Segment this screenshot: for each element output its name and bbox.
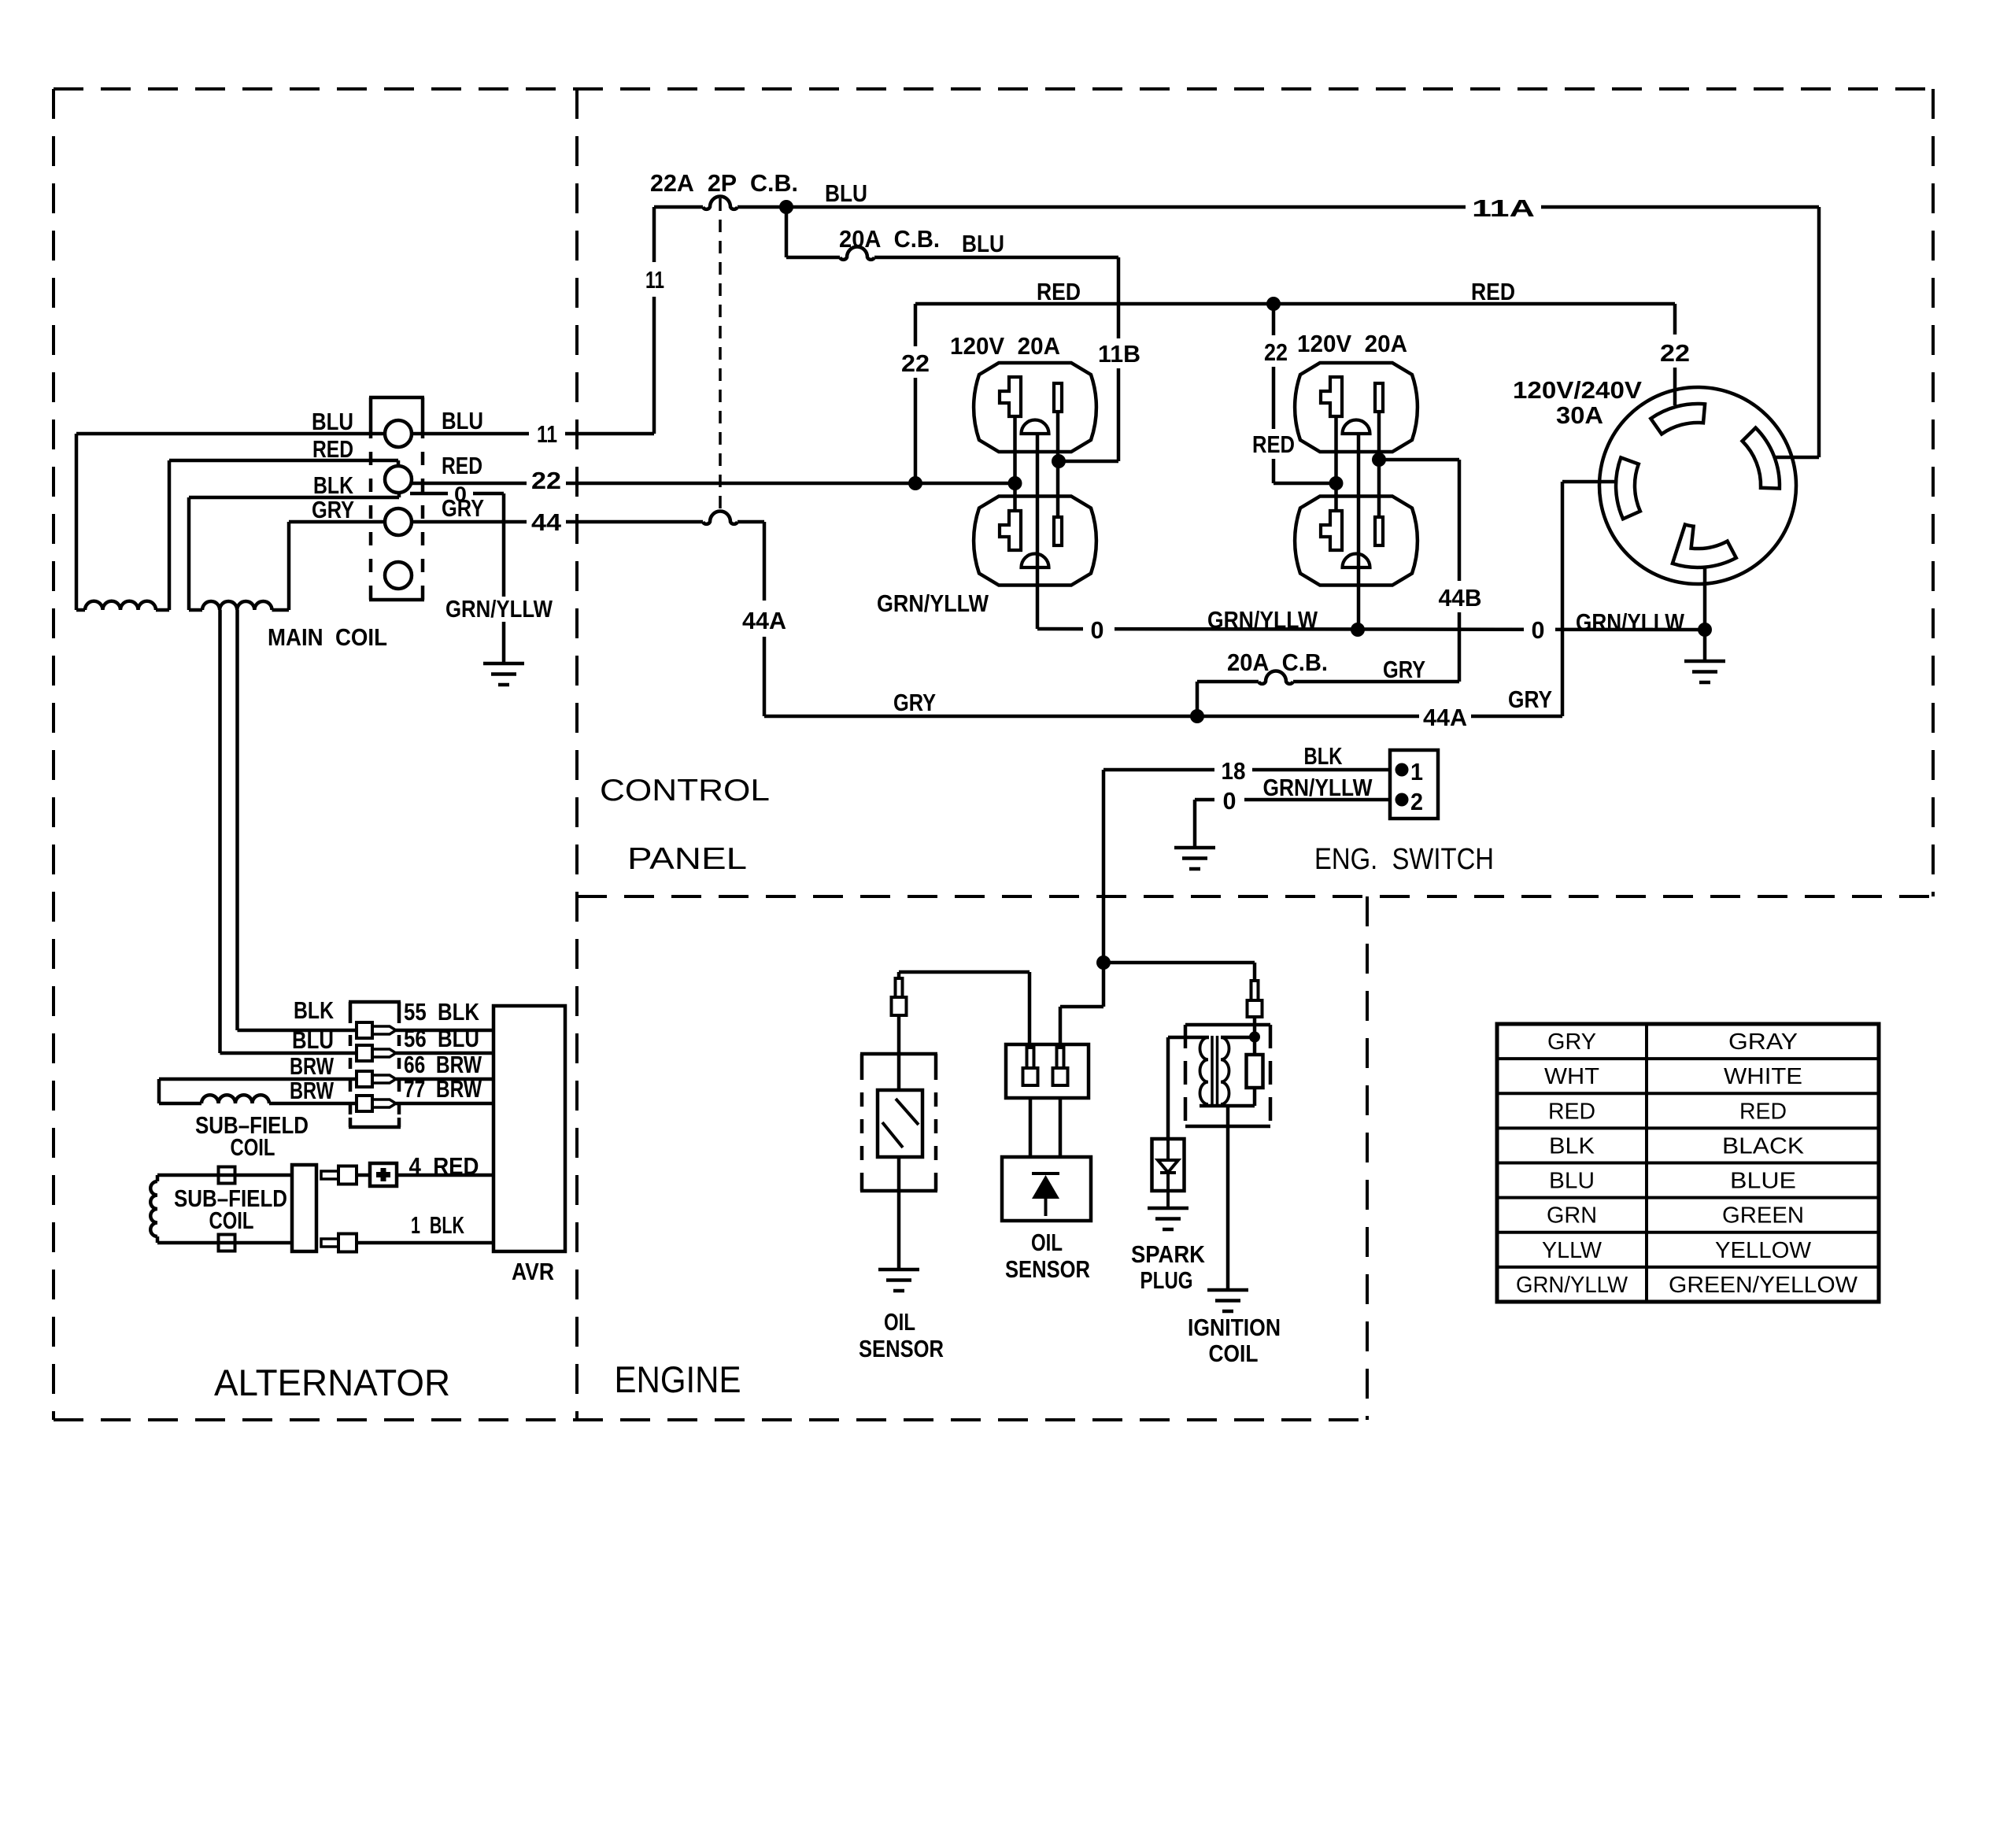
- svg-text:22: 22: [1264, 338, 1288, 366]
- svg-text:GRN/YLLW: GRN/YLLW: [1207, 606, 1318, 634]
- svg-text:GREEN: GREEN: [1722, 1203, 1804, 1229]
- svg-text:120V/240V: 120V/240V: [1513, 376, 1642, 404]
- svg-text:RED: RED: [1739, 1099, 1787, 1124]
- svg-text:20A C.B.: 20A C.B.: [1227, 649, 1328, 676]
- svg-text:BLU: BLU: [1549, 1169, 1595, 1194]
- svg-text:GRY: GRY: [1383, 656, 1425, 683]
- svg-text:BLK: BLK: [1549, 1133, 1595, 1159]
- svg-text:PANEL: PANEL: [627, 842, 747, 876]
- svg-text:0: 0: [1532, 616, 1545, 644]
- svg-text:0: 0: [1091, 616, 1104, 644]
- svg-text:PLUG: PLUG: [1140, 1266, 1193, 1294]
- svg-text:120V 20A: 120V 20A: [1297, 330, 1407, 357]
- svg-text:GRAY: GRAY: [1728, 1029, 1798, 1055]
- svg-text:22: 22: [1660, 339, 1690, 367]
- svg-text:COIL: COIL: [231, 1133, 275, 1161]
- svg-text:BLK: BLK: [1304, 742, 1343, 770]
- svg-text:WHITE: WHITE: [1724, 1064, 1802, 1089]
- svg-text:GRN/YLLW: GRN/YLLW: [877, 590, 989, 617]
- svg-text:YELLOW: YELLOW: [1715, 1238, 1812, 1263]
- svg-text:BRW: BRW: [290, 1052, 335, 1080]
- svg-text:GRN/YLLW: GRN/YLLW: [1576, 608, 1685, 636]
- svg-text:IGNITION: IGNITION: [1188, 1314, 1281, 1341]
- svg-text:22: 22: [901, 349, 930, 377]
- svg-text:56 BLU: 56 BLU: [404, 1025, 479, 1052]
- svg-text:BLU: BLU: [962, 230, 1004, 257]
- svg-text:11: 11: [645, 266, 664, 294]
- svg-text:ENG. SWITCH: ENG. SWITCH: [1314, 843, 1494, 876]
- svg-text:BLK: BLK: [294, 996, 334, 1024]
- svg-text:44B: 44B: [1439, 584, 1482, 612]
- svg-text:30A: 30A: [1556, 401, 1603, 429]
- svg-text:RED: RED: [312, 435, 353, 463]
- svg-text:11A: 11A: [1472, 194, 1535, 222]
- svg-text:1: 1: [1410, 758, 1423, 785]
- svg-text:44A: 44A: [742, 607, 786, 634]
- svg-text:GRN: GRN: [1547, 1203, 1597, 1229]
- svg-text:RED: RED: [442, 452, 482, 479]
- svg-text:GRY: GRY: [893, 689, 936, 716]
- svg-text:RED: RED: [1037, 278, 1081, 305]
- svg-text:GRN/YLLW: GRN/YLLW: [445, 595, 553, 623]
- svg-text:GRN/YLLW: GRN/YLLW: [1263, 774, 1373, 801]
- svg-text:RED: RED: [1252, 431, 1295, 458]
- svg-text:CONTROL: CONTROL: [600, 774, 770, 808]
- svg-text:66 BRW: 66 BRW: [404, 1051, 482, 1078]
- svg-text:COIL: COIL: [209, 1207, 254, 1234]
- svg-text:22A 2P C.B.: 22A 2P C.B.: [650, 169, 798, 197]
- svg-text:BRW: BRW: [290, 1077, 335, 1104]
- svg-text:GREEN/YELLOW: GREEN/YELLOW: [1669, 1273, 1858, 1298]
- svg-text:22: 22: [531, 467, 561, 494]
- svg-text:11: 11: [537, 420, 557, 448]
- svg-text:OIL: OIL: [1031, 1229, 1063, 1256]
- svg-text:20A C.B.: 20A C.B.: [839, 225, 940, 253]
- svg-text:1 BLK: 1 BLK: [411, 1211, 464, 1239]
- svg-text:AVR: AVR: [512, 1258, 554, 1285]
- svg-text:GRY: GRY: [442, 494, 484, 522]
- svg-text:2: 2: [1410, 788, 1423, 815]
- svg-text:GRN/YLLW: GRN/YLLW: [1516, 1273, 1628, 1298]
- svg-text:COIL: COIL: [1209, 1340, 1259, 1367]
- svg-text:BLK: BLK: [313, 471, 353, 499]
- svg-text:YLLW: YLLW: [1542, 1238, 1603, 1263]
- svg-text:GRY: GRY: [1508, 686, 1552, 713]
- svg-text:0: 0: [1223, 787, 1237, 815]
- svg-text:120V 20A: 120V 20A: [950, 332, 1060, 360]
- svg-text:BLUE: BLUE: [1730, 1169, 1796, 1194]
- svg-text:18: 18: [1222, 757, 1246, 785]
- svg-text:ALTERNATOR: ALTERNATOR: [214, 1362, 450, 1403]
- svg-text:SENSOR: SENSOR: [859, 1335, 944, 1362]
- svg-text:55 BLK: 55 BLK: [404, 998, 480, 1026]
- svg-text:OIL: OIL: [884, 1308, 915, 1336]
- svg-text:BLU: BLU: [292, 1026, 334, 1054]
- svg-text:SPARK: SPARK: [1131, 1240, 1206, 1268]
- svg-text:11B: 11B: [1098, 340, 1140, 368]
- svg-text:4 RED: 4 RED: [409, 1152, 479, 1180]
- svg-text:44: 44: [531, 508, 562, 536]
- svg-text:ENGINE: ENGINE: [615, 1358, 741, 1400]
- svg-text:GRY: GRY: [1547, 1029, 1596, 1055]
- svg-text:RED: RED: [1471, 278, 1515, 305]
- svg-text:77 BRW: 77 BRW: [404, 1075, 482, 1103]
- svg-text:SENSOR: SENSOR: [1005, 1255, 1090, 1283]
- svg-text:BLU: BLU: [312, 408, 353, 435]
- svg-text:BLU: BLU: [825, 179, 867, 207]
- svg-text:44A: 44A: [1423, 704, 1467, 731]
- svg-text:BLACK: BLACK: [1722, 1133, 1805, 1159]
- svg-text:MAIN COIL: MAIN COIL: [268, 623, 387, 651]
- svg-text:BLU: BLU: [442, 407, 483, 434]
- svg-text:GRY: GRY: [312, 496, 354, 523]
- svg-text:RED: RED: [1548, 1099, 1595, 1124]
- svg-text:WHT: WHT: [1544, 1064, 1599, 1089]
